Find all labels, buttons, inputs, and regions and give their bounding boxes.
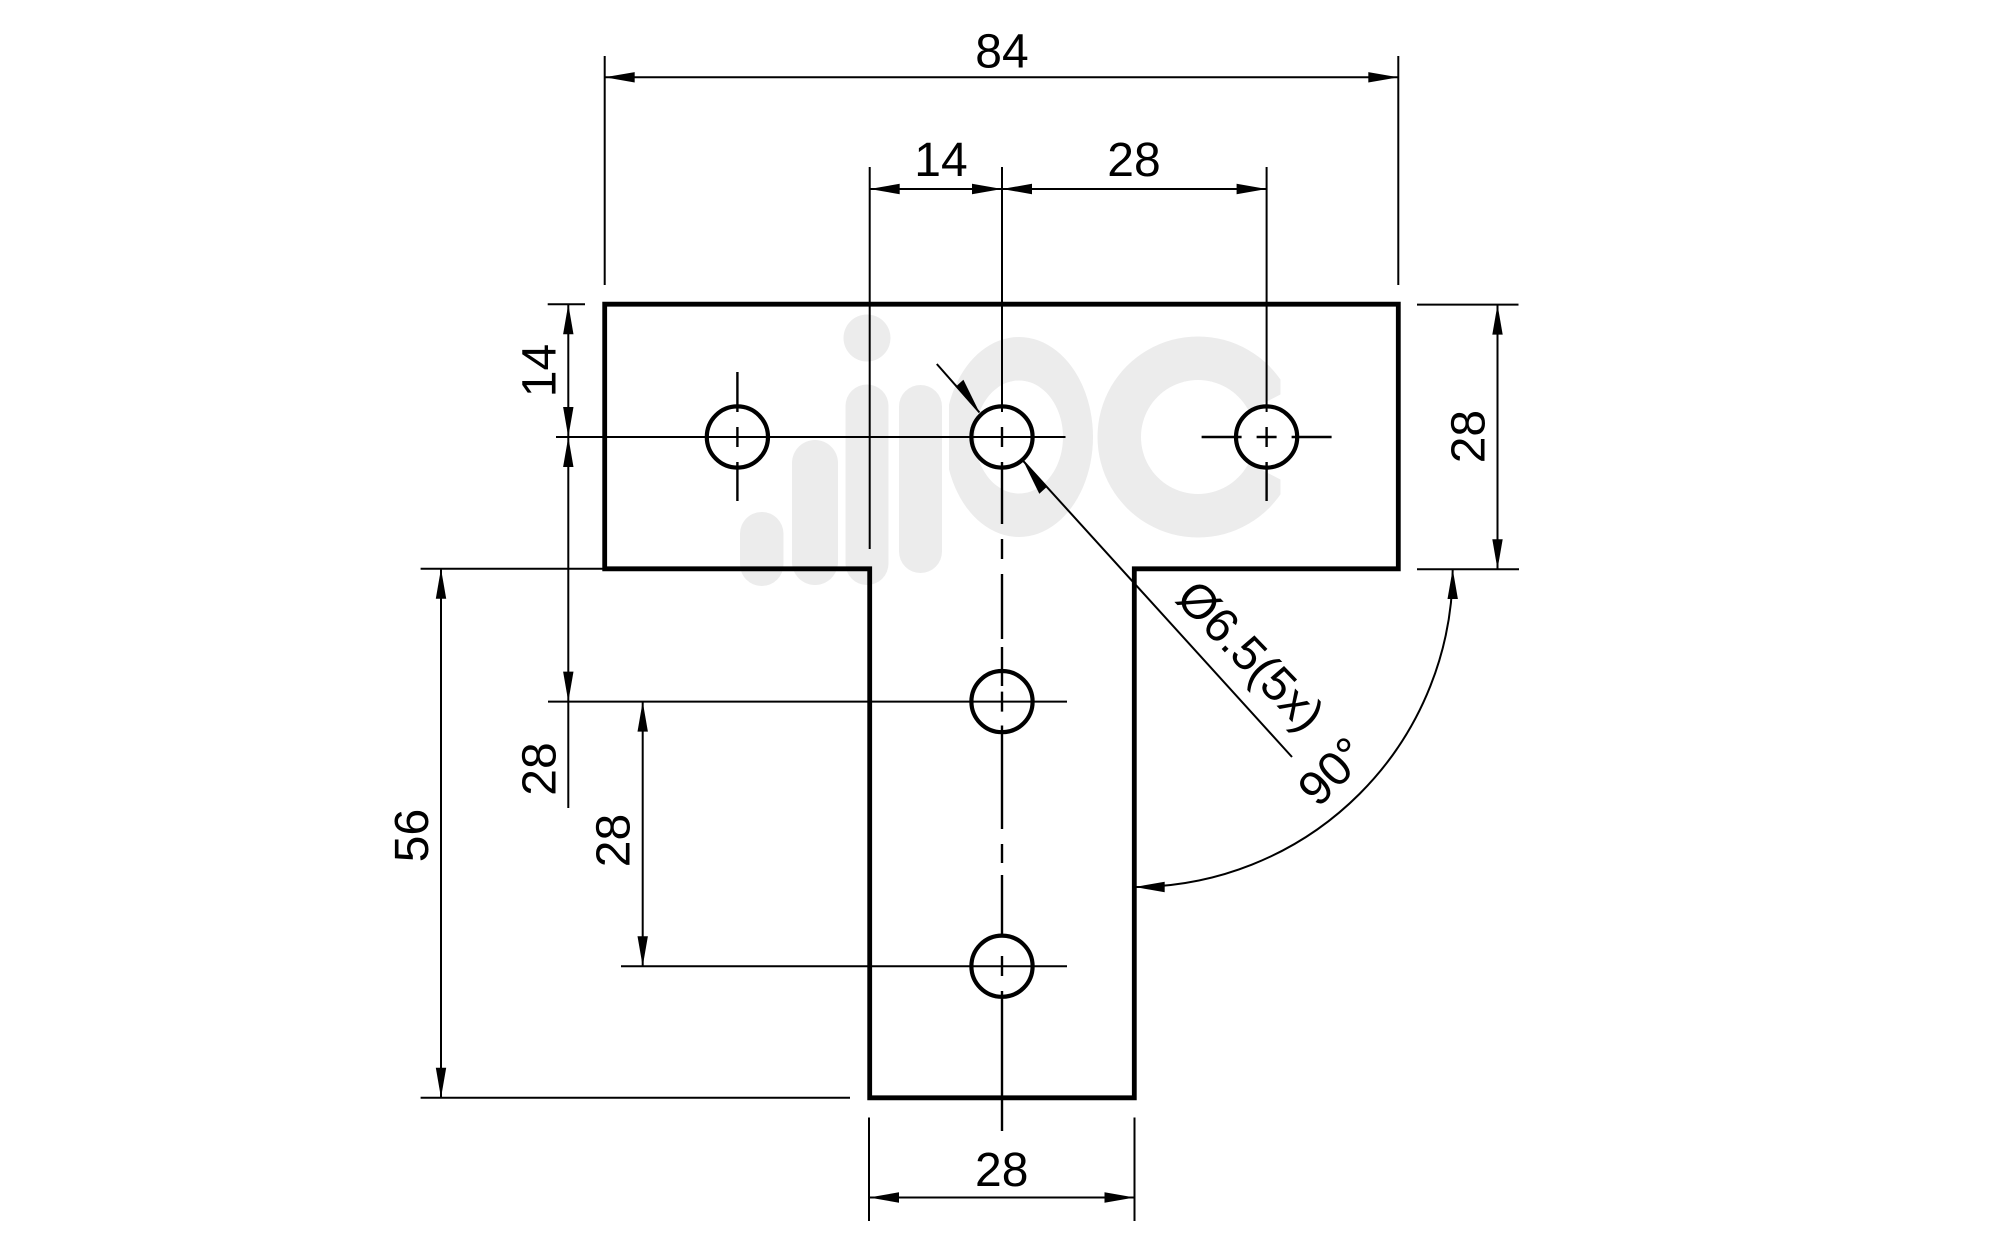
watermark bar 3 (i stem): [846, 385, 889, 586]
dimension 28 bottom extension lines: [868, 1118, 870, 1222]
watermark c ring: [1098, 337, 1299, 538]
watermark p bowl: [945, 337, 1093, 537]
14 left arrows: [563, 304, 573, 334]
arc arrow bottom (pointing left): [1135, 882, 1165, 892]
svg-text:28: 28: [513, 742, 566, 795]
leader arrow lower (pointing up-left): [1023, 461, 1047, 494]
svg-text:28: 28: [1107, 134, 1160, 187]
hole H3: [1236, 406, 1297, 467]
28 top arrows: [1002, 184, 1032, 194]
watermark bar 2: [792, 440, 838, 585]
dimension 28 right extension lines: [1417, 304, 1519, 306]
hole H1: [707, 406, 768, 467]
watermark dot bar 1: [740, 512, 784, 586]
28 B arrows: [638, 702, 648, 732]
watermark ipo logo: [740, 315, 1299, 587]
plate outline: [605, 304, 1399, 1098]
angular dimension arc 90deg: [1135, 569, 1453, 887]
dimension 28 B line: [642, 702, 644, 967]
leader line lower segment: [1023, 461, 1292, 757]
28 A arrows: [563, 437, 573, 467]
arc arrow top (pointing up): [1448, 569, 1458, 599]
hole H3 horizontal center mark: [1202, 436, 1332, 438]
leader arrow upper (pointing down-right): [956, 380, 980, 413]
28 bottom arrows: [869, 1192, 899, 1202]
arrowheads: [436, 72, 1503, 1203]
dimension 14/28 top line: [870, 188, 1267, 190]
hole H2: [971, 406, 1032, 467]
hole H5 center line horizontal: [621, 965, 1067, 967]
svg-text:28: 28: [1443, 410, 1496, 463]
dimension 84 extension lines: [421, 56, 1519, 1221]
hole H3 vertical center mark: [1265, 427, 1267, 501]
56 arrows: [436, 569, 446, 599]
svg-text:56: 56: [386, 809, 439, 862]
leader line upper segment: [937, 364, 980, 413]
hole row center line (horizontal through H1,H2): [556, 436, 1066, 438]
28 right arrows: [1492, 305, 1502, 335]
dimension 28 bottom line: [869, 1197, 1135, 1199]
hole H1 vertical center mark: [736, 372, 738, 501]
dimension 56 line: [440, 569, 442, 1098]
hole H4: [971, 671, 1032, 732]
watermark c right cut: [1281, 328, 1315, 548]
14 top arrows: [870, 184, 900, 194]
hole H4 center line horizontal: [548, 701, 1067, 703]
dimension 84 line: [605, 76, 1399, 78]
dimension 14 left + 28 A line: [567, 304, 569, 808]
svg-text:14: 14: [513, 344, 566, 397]
svg-text:84: 84: [975, 26, 1028, 79]
dimension 14/28 top extension lines: [869, 167, 871, 549]
hole H5: [971, 936, 1032, 997]
svg-text:28: 28: [588, 814, 641, 867]
dimension 28 right line: [1497, 305, 1499, 570]
svg-text:28: 28: [975, 1144, 1028, 1197]
watermark i dot: [844, 315, 891, 362]
dimension 56 extension lines: [421, 568, 604, 570]
vertical center line through stem: [1001, 427, 1003, 1131]
svg-text:14: 14: [914, 134, 967, 187]
dimension 14 left extension tick: [548, 303, 585, 305]
84 arrows: [605, 72, 635, 82]
watermark c opening (white wedge): [1198, 369, 1330, 505]
watermark p stem: [899, 385, 942, 573]
